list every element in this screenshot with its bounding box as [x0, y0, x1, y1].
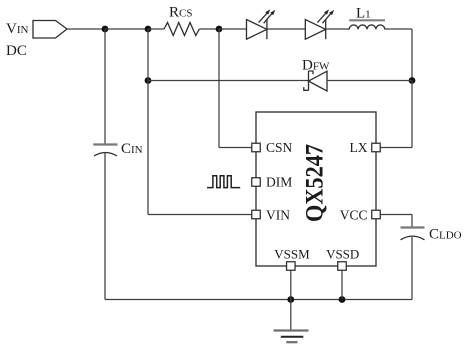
svg-text:VSSD: VSSD — [326, 247, 359, 262]
svg-text:VCC: VCC — [340, 208, 368, 223]
ground — [274, 300, 309, 343]
node G (VSSD to rail) — [339, 296, 346, 303]
wire connector to node A — [67, 28, 105, 30]
wire node E to diode DFW cathode — [148, 80, 309, 82]
LED D2 — [305, 9, 334, 39]
node B — [145, 26, 152, 33]
node E — [145, 77, 152, 84]
svg-text:RCS: RCS — [169, 5, 192, 21]
capacitor CIN — [93, 145, 117, 157]
node D — [409, 77, 416, 84]
pin VCC — [340, 208, 381, 223]
capacitor CLDO — [401, 228, 425, 240]
wire to CSN pin — [219, 147, 254, 149]
svg-text:VIN: VIN — [6, 21, 29, 37]
pin VSSD — [326, 247, 359, 271]
wire node D down to LX wire — [411, 81, 413, 148]
wire node A to node B — [105, 28, 148, 30]
label DFW — [302, 58, 330, 74]
pin VSSM — [274, 247, 310, 271]
pin VIN — [252, 208, 290, 223]
svg-text:DIM: DIM — [266, 175, 292, 190]
diode DFW (Schottky) — [304, 71, 327, 91]
wire VSSM pin to node F — [290, 266, 292, 300]
wire node C down to CSN row (crosses DFW wire) — [218, 29, 220, 148]
wire node A down to capacitor CIN — [104, 29, 106, 145]
node C — [216, 26, 223, 33]
label RCS — [169, 5, 192, 21]
resistor RCS — [164, 23, 199, 36]
svg-text:LX: LX — [350, 140, 368, 155]
svg-text:VSSM: VSSM — [274, 247, 310, 262]
op-amp U1 QX5247 IC body — [256, 112, 376, 266]
pin CSN — [252, 140, 293, 155]
svg-text:CSN: CSN — [266, 140, 293, 155]
label CLDO — [429, 227, 462, 243]
svg-text:QX5247: QX5247 — [302, 144, 329, 222]
svg-text:VIN: VIN — [266, 208, 290, 223]
wire node E down to VIN pin row — [147, 81, 149, 215]
node F (VSSM to rail) — [287, 296, 294, 303]
wire CLDO to bottom rail — [411, 237, 413, 300]
wire LED D2 to inductor L1 — [326, 28, 350, 30]
wire right corner down to node D — [411, 29, 413, 81]
label VIN — [6, 21, 29, 37]
wire LED D1 to LED D2 — [267, 28, 305, 30]
wire resistor to node C — [199, 28, 219, 30]
svg-text:L1: L1 — [356, 6, 371, 22]
pin LX — [350, 140, 381, 155]
wire node B down to node E — [147, 29, 149, 81]
wire down to CLDO top plate — [411, 215, 413, 228]
connector J1 VIN DC input — [33, 21, 67, 39]
pin DIM — [252, 175, 293, 190]
wire to VIN pin — [148, 214, 254, 216]
label QX5247 — [302, 144, 329, 222]
wire VSSD pin to node G — [341, 266, 343, 300]
LED D1 — [247, 9, 276, 39]
wire inductor L1 to right corner — [385, 28, 412, 30]
label L1 — [356, 6, 371, 22]
PWM waveform symbol at DIM — [207, 176, 240, 188]
node A — [102, 26, 109, 33]
wire diode DFW anode to node D — [327, 80, 412, 82]
wire node C to LED D1 — [219, 28, 247, 30]
label CIN — [121, 141, 143, 157]
svg-text:CLDO: CLDO — [429, 227, 462, 243]
svg-text:CIN: CIN — [121, 141, 143, 157]
inductor L1 — [349, 20, 385, 29]
wire bottom ground rail — [105, 299, 412, 301]
wire node B to resistor R_CS — [148, 28, 164, 30]
wire LX pin to node D branch — [378, 147, 412, 149]
wire VCC pin to CLDO — [378, 214, 412, 216]
svg-text:DFW: DFW — [302, 58, 330, 74]
svg-text:DC: DC — [6, 43, 27, 59]
wire capacitor CIN to bottom rail — [104, 153, 106, 300]
label DC — [6, 43, 27, 59]
